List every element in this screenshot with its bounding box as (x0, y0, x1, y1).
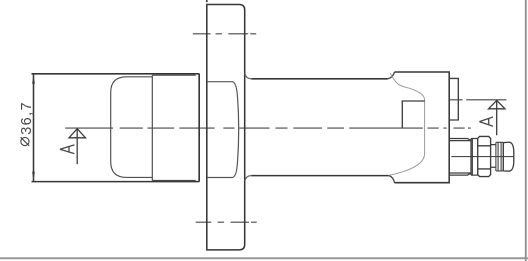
nipple cap (503, 142, 514, 171)
section line A-A right (449, 99, 506, 101)
washer rings (496, 142, 503, 171)
dimension arrow top (32, 74, 35, 84)
flange (207, 5, 245, 250)
bolt hole centerline top (193, 33, 256, 35)
page border right (525, 0, 527, 261)
swoosh cosmetic line (389, 73, 424, 175)
flange edge dash above (206, 0, 208, 2)
collar 2 (491, 145, 496, 168)
fillet flange-tube bottom (245, 176, 252, 181)
diameter symbol (21, 137, 30, 146)
fitting stem (449, 139, 471, 176)
section arrow stem left (76, 129, 78, 165)
fitting axis (451, 156, 513, 158)
boot right section (152, 75, 195, 180)
section arrow left (69, 129, 86, 138)
letter A right (479, 117, 493, 126)
page border bottom (0, 257, 528, 259)
section arrow right (489, 100, 506, 108)
tube top (251, 78, 387, 80)
dimension arrow bottom (32, 172, 35, 182)
collar (471, 139, 478, 176)
junction tube-body top (388, 72, 395, 79)
hex nut (478, 136, 491, 176)
fillet flange-tube top (245, 73, 252, 78)
right body (395, 72, 450, 183)
letter A left (60, 145, 75, 154)
svg-text:36,7: 36,7 (19, 101, 35, 135)
tube bottom (251, 175, 388, 177)
tab on right edge (449, 78, 458, 120)
boot left section (111, 77, 153, 178)
barrel end face (198, 74, 200, 182)
port notch (402, 101, 424, 128)
junction tube-body bottom (389, 176, 395, 183)
bolt hole centerline bottom (196, 221, 257, 223)
section arrow stem right (496, 100, 498, 135)
boss behind flange (207, 82, 239, 178)
main centerline (65, 127, 471, 129)
barrel outline (32, 74, 200, 182)
